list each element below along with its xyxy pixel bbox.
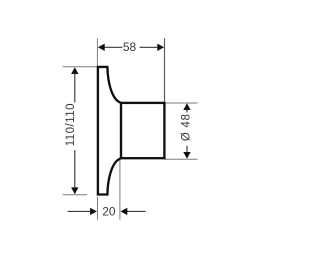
svg-text:Ø 48: Ø 48	[181, 113, 193, 141]
svg-text:58: 58	[123, 40, 137, 54]
svg-text:20: 20	[102, 205, 116, 219]
svg-text:110/110: 110/110	[65, 103, 77, 146]
